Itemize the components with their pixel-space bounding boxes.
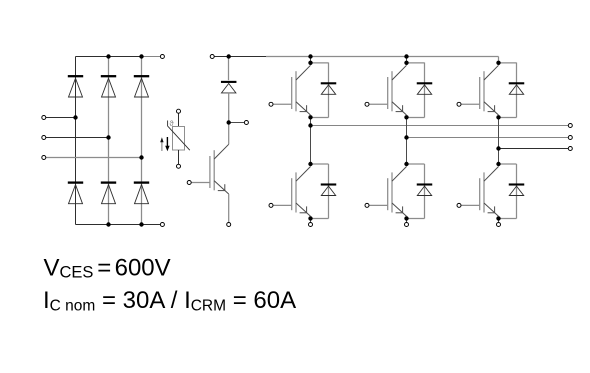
wire brake node to IGBT collector [228, 123, 230, 145]
wire leg 3 phase node down [498, 117, 500, 148]
terminal AC output phase 1 [568, 124, 572, 128]
diode leg 1 upper freewheel cathode bar [321, 82, 337, 84]
junction leg 1 upper split [308, 61, 312, 65]
wire brake node stub [229, 122, 245, 124]
terminal AC input phase 2 [42, 136, 46, 140]
wire rectifier column 3 (vertical) [141, 57, 143, 225]
junction DC+ rail / brake branch [227, 54, 231, 58]
wire AC input phase 3 [46, 157, 142, 159]
diode leg 3 lower freewheel [509, 186, 523, 195]
diode leg 1 lower freewheel cathode bar [321, 183, 337, 185]
wire leg 1 phase node down [310, 117, 312, 125]
junction AC2 / column 2 [106, 135, 110, 139]
wire leg 2 lower diode branch bottom [407, 218, 425, 220]
wire leg 1 emitter stub [310, 218, 312, 222]
wire leg 2 phase node down [406, 117, 408, 137]
terminal rectifier DC+ output [160, 55, 164, 59]
junction rectifier top rail / column 3 [139, 54, 143, 58]
junction rectifier top rail / column 2 [106, 54, 110, 58]
junction AC1 / column 1 [73, 115, 77, 119]
wire rectifier top rail (DC+) [76, 56, 143, 58]
wire leg 2 upper diode branch bottom [407, 117, 425, 119]
diode D1 cathode bar (top row) [68, 75, 83, 77]
wire leg 2 to lower split [406, 138, 408, 165]
diode D2 cathode bar (top row) [101, 75, 116, 77]
wire AC input phase 1 [46, 117, 76, 119]
transistor leg 3 bottom IGBT [461, 167, 498, 217]
wire leg 2 upper diode branch top [407, 62, 425, 64]
wire rail to split node leg 2 [406, 57, 408, 63]
junction leg 1 emitter node [308, 216, 312, 220]
diode D7 (brake) [222, 84, 236, 93]
terminal leg 3 emitter [497, 223, 501, 227]
wire rectifier column 2 (vertical) [108, 57, 110, 225]
junction rectifier bottom rail / column 2 [106, 222, 110, 226]
wire leg 2 lower diode branch vertical [424, 164, 426, 219]
gate terminal [269, 203, 273, 207]
wire rectifier column 1 (vertical) [75, 57, 77, 225]
thermistor body [173, 127, 185, 151]
gate terminal [187, 181, 191, 185]
wire leg 3 lower diode branch bottom [499, 218, 517, 220]
terminal rectifier DC- output [160, 223, 164, 227]
junction brake chopper node [227, 120, 231, 124]
transistor Q7 brake chopper IGBT [192, 144, 229, 194]
wire leg 3 to lower split [498, 149, 500, 165]
diode D5 cathode bar (bottom row) [101, 181, 116, 183]
terminal DC+ bus input [210, 55, 214, 59]
diode leg 2 lower freewheel [417, 186, 431, 195]
diode D1 (rectifier top row) [69, 78, 83, 97]
transistor leg 1 top IGBT [273, 65, 310, 115]
wire thermistor bottom lead [178, 150, 180, 164]
diode leg 2 upper freewheel [417, 85, 431, 94]
junction AC3 / column 3 [139, 155, 143, 159]
diode D4 cathode bar (bottom row) [68, 181, 83, 183]
wire rectifier top rail right stub [142, 56, 160, 58]
terminal brake node [244, 121, 248, 125]
wire rectifier bottom rail (DC-) [76, 224, 163, 226]
diode D3 cathode bar (top row) [134, 75, 149, 77]
wire AC input phase 2 [46, 137, 109, 139]
terminal AC input phase 3 [42, 156, 46, 160]
diode D6 cathode bar (bottom row) [134, 181, 149, 183]
terminal thermistor top [177, 109, 181, 113]
transistor leg 1 bottom IGBT [273, 167, 310, 217]
wire leg 1 lower diode branch vertical [328, 164, 330, 219]
wire leg 3 lower diode branch vertical [516, 164, 518, 219]
diode leg 3 upper freewheel cathode bar [509, 82, 525, 84]
wire leg 3 upper diode branch top [499, 62, 517, 64]
wire AC output phase 1 [311, 125, 569, 127]
terminal AC input phase 1 [42, 116, 46, 120]
wire brake IGBT emitter lead [228, 194, 230, 222]
junction leg 2 emitter node [404, 216, 408, 220]
thermistor diagonal stroke [168, 121, 190, 151]
terminal leg 2 emitter [405, 223, 409, 227]
junction leg 1 output tap [308, 123, 312, 127]
junction DC+ rail / leg 2 [404, 54, 408, 58]
diode leg 3 upper freewheel [509, 85, 523, 94]
wire leg 1 upper diode branch top [311, 62, 329, 64]
diode D5 (rectifier bottom row) [102, 185, 116, 204]
transistor leg 2 bottom IGBT [369, 167, 406, 217]
junction leg 3 lower split [496, 162, 500, 166]
wire rail to split node leg 1 [310, 57, 312, 63]
junction leg 3 emitter node [496, 216, 500, 220]
terminal AC output phase 2 [568, 136, 572, 140]
junction leg 2 lower split [404, 162, 408, 166]
diode leg 1 upper freewheel [321, 85, 335, 94]
terminal leg 1 emitter [309, 223, 313, 227]
diode D6 (rectifier bottom row) [135, 185, 149, 204]
transistor leg 2 top IGBT [369, 65, 406, 115]
gate terminal [365, 102, 369, 106]
junction leg 3 upper split [496, 61, 500, 65]
gate terminal [365, 203, 369, 207]
wire leg 1 lower diode branch top [311, 163, 329, 165]
terminal AC output phase 3 [568, 147, 572, 151]
diode D3 (rectifier top row) [135, 78, 149, 97]
wire rail corner down leg 3 [498, 57, 500, 63]
wire brake diode top lead [228, 56, 230, 80]
junction leg 1 lower split [308, 162, 312, 166]
diode D4 (rectifier bottom row) [69, 185, 83, 204]
diode leg 1 lower freewheel [321, 186, 335, 195]
arrow down (heat exchange) [166, 137, 168, 147]
junction DC+ rail / leg 1 [308, 54, 312, 58]
junction leg 2 upper split [404, 61, 408, 65]
wire leg 1 upper diode branch bottom [311, 117, 329, 119]
wire leg 2 lower diode branch top [407, 163, 425, 165]
wire leg 2 upper diode branch vertical [424, 63, 426, 118]
wire leg 3 upper diode branch vertical [516, 63, 518, 118]
diode D2 (rectifier top row) [102, 78, 116, 97]
wire leg 1 upper diode branch vertical [328, 63, 330, 118]
wire leg 3 upper diode branch bottom [499, 117, 517, 119]
wire brake diode to chopper node [228, 93, 230, 123]
terminal thermistor bottom [177, 164, 181, 168]
junction leg 3 phase node [496, 115, 500, 119]
junction leg 1 phase node [308, 115, 312, 119]
gate terminal [269, 102, 273, 106]
diode D7 (brake) cathode bar [221, 81, 237, 83]
terminal brake emitter [227, 223, 231, 227]
wire AC output phase 3 [499, 148, 569, 150]
gate terminal [457, 102, 461, 106]
wire leg 3 emitter stub [498, 218, 500, 222]
wire DC+ rail (light segment) [266, 56, 499, 58]
diode leg 3 lower freewheel cathode bar [509, 183, 525, 185]
wire thermistor top lead [178, 113, 180, 126]
diode leg 2 lower freewheel cathode bar [417, 183, 433, 185]
junction leg 2 phase node [404, 115, 408, 119]
wire AC output phase 2 [407, 137, 569, 139]
junction leg 2 output tap [404, 135, 408, 139]
transistor leg 3 top IGBT [461, 65, 498, 115]
gate terminal [457, 203, 461, 207]
wire DC+ rail (dark segment) [214, 56, 266, 58]
diode leg 2 upper freewheel cathode bar [417, 82, 433, 84]
arrow up (heat exchange) [161, 142, 163, 152]
wire leg 3 lower diode branch top [499, 163, 517, 165]
wire leg 1 to lower split [310, 126, 312, 165]
junction leg 3 output tap [496, 146, 500, 150]
junction rectifier bottom rail / column 3 [139, 222, 143, 226]
wire leg 2 emitter stub [406, 218, 408, 222]
wire leg 1 lower diode branch bottom [311, 218, 329, 220]
